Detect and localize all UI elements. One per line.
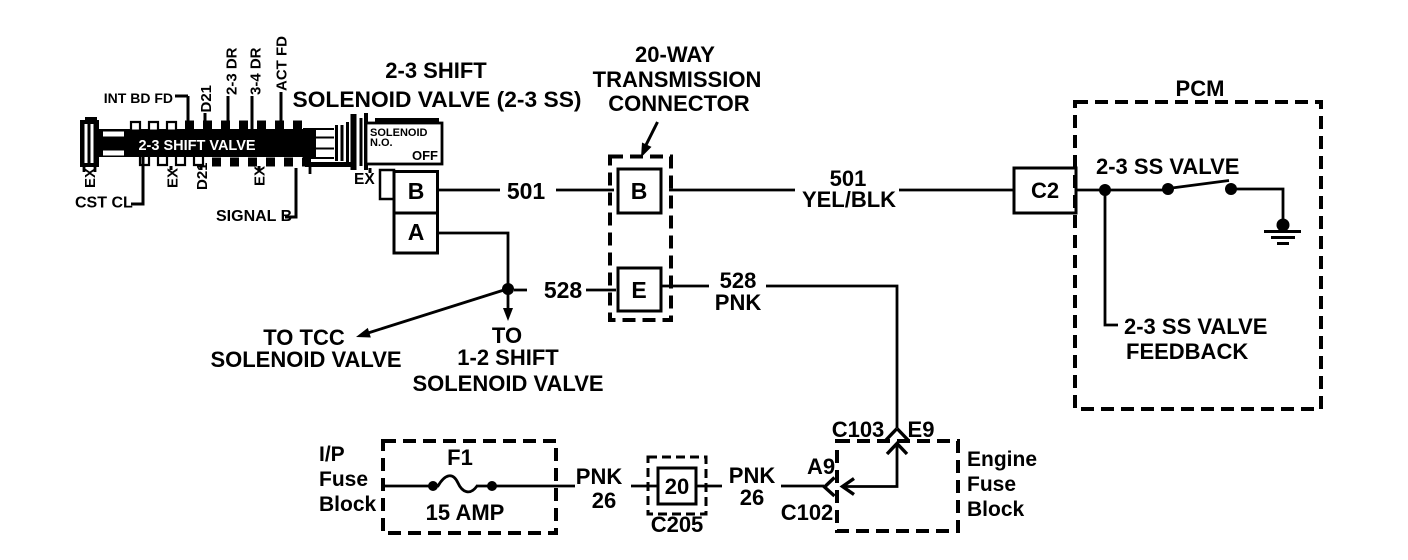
svg-text:15 AMP: 15 AMP <box>426 500 505 525</box>
svg-text:I/P: I/P <box>319 443 345 466</box>
svg-text:PNK: PNK <box>576 464 623 489</box>
svg-text:ACT FD: ACT FD <box>274 36 291 91</box>
svg-text:Block: Block <box>319 493 377 516</box>
svg-text:PCM: PCM <box>1176 76 1225 101</box>
svg-text:EX: EX <box>252 166 269 186</box>
svg-text:N.O.: N.O. <box>370 137 393 149</box>
svg-text:A: A <box>408 219 425 245</box>
svg-text:2-3 DR: 2-3 DR <box>224 47 241 95</box>
svg-text:Block: Block <box>967 498 1025 521</box>
svg-text:EX: EX <box>354 171 375 188</box>
svg-text:C2: C2 <box>1031 178 1059 203</box>
svg-text:SOLENOID VALVE: SOLENOID VALVE <box>210 347 401 372</box>
svg-text:20-WAY: 20-WAY <box>635 42 715 67</box>
svg-text:B: B <box>631 178 648 204</box>
svg-text:2-3 SHIFT VALVE: 2-3 SHIFT VALVE <box>138 138 255 154</box>
svg-text:A9: A9 <box>807 454 835 479</box>
svg-text:501: 501 <box>507 178 546 204</box>
svg-text:D21: D21 <box>194 162 211 190</box>
svg-text:26: 26 <box>592 488 616 513</box>
svg-text:1-2 SHIFT: 1-2 SHIFT <box>457 345 559 370</box>
svg-text:EX: EX <box>82 168 99 188</box>
svg-text:F1: F1 <box>447 445 473 470</box>
svg-text:Fuse: Fuse <box>319 468 368 491</box>
svg-text:PNK: PNK <box>715 290 762 315</box>
svg-text:B: B <box>408 178 425 204</box>
svg-text:20: 20 <box>665 474 689 499</box>
svg-text:YEL/BLK: YEL/BLK <box>802 187 896 212</box>
svg-text:TRANSMISSION: TRANSMISSION <box>593 67 762 92</box>
svg-text:2-3 SS VALVE: 2-3 SS VALVE <box>1124 314 1267 339</box>
svg-text:OFF: OFF <box>412 148 438 163</box>
svg-text:C103: C103 <box>832 417 885 442</box>
svg-text:SOLENOID VALVE: SOLENOID VALVE <box>412 371 603 396</box>
svg-text:INT BD FD: INT BD FD <box>104 90 173 106</box>
svg-text:EX: EX <box>165 168 182 188</box>
svg-text:2-3 SS VALVE: 2-3 SS VALVE <box>1096 154 1239 179</box>
svg-text:Engine: Engine <box>967 448 1037 471</box>
svg-text:C205: C205 <box>651 512 704 537</box>
svg-text:Fuse: Fuse <box>967 473 1016 496</box>
svg-text:528: 528 <box>544 277 583 303</box>
svg-text:D21: D21 <box>198 85 215 113</box>
svg-text:SIGNAL B: SIGNAL B <box>216 208 292 225</box>
svg-text:C102: C102 <box>781 500 834 525</box>
svg-text:SOLENOID VALVE (2-3 SS): SOLENOID VALVE (2-3 SS) <box>293 87 582 112</box>
svg-text:CST CL: CST CL <box>75 195 133 212</box>
svg-text:FEEDBACK: FEEDBACK <box>1126 339 1248 364</box>
svg-text:CONNECTOR: CONNECTOR <box>608 91 749 116</box>
svg-text:E: E <box>631 277 646 303</box>
svg-text:3-4 DR: 3-4 DR <box>248 47 265 95</box>
svg-text:26: 26 <box>740 485 764 510</box>
svg-text:E9: E9 <box>908 417 935 442</box>
svg-text:2-3 SHIFT: 2-3 SHIFT <box>385 58 487 83</box>
